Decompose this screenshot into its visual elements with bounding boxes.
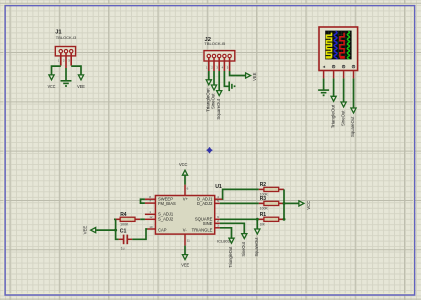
svg-text:FM_BIAS: FM_BIAS [158, 201, 176, 206]
junction R1-SquareOut [256, 218, 259, 221]
J2 pin 1 circle [207, 54, 210, 57]
U1 pin 1 stub [145, 213, 156, 215]
wire U1 pin4 to R2 [223, 189, 259, 199]
J1 pin 1 circle [59, 50, 62, 53]
U1 pin 6 stub (V+) [184, 185, 186, 196]
wire scope C [343, 78, 345, 102]
wire U1 pin9 to R1 [220, 218, 259, 220]
scope pin A stub [323, 71, 325, 79]
terminal SineOut [242, 234, 247, 239]
ground (J2) [229, 82, 232, 92]
wire U1 V- to VEE [184, 246, 186, 255]
junction bus-VCC [283, 202, 286, 205]
wire J2 pin4 to ground [224, 71, 229, 86]
terminal TriangleOut (J2) [206, 80, 211, 85]
wire J2 pin2 [213, 71, 215, 85]
wire junction to VEE terminal [96, 229, 115, 231]
svg-text:10K: 10K [260, 222, 266, 226]
svg-text:R3: R3 [260, 196, 267, 202]
origin marker [207, 147, 213, 153]
power terminal VEE (J2) [246, 73, 251, 78]
terminal SquareOut (scope D) [351, 108, 356, 113]
oscilloscope body [319, 27, 358, 71]
svg-text:S_ADJ2: S_ADJ2 [158, 217, 174, 222]
wire resistor bus vertical [283, 189, 285, 219]
svg-text:1u: 1u [121, 246, 125, 250]
svg-text:5: 5 [217, 199, 219, 203]
svg-text:1: 1 [149, 210, 151, 214]
J2 pin 4 circle [223, 54, 226, 57]
wire R4 to U1 pin12 [140, 218, 145, 220]
terminal TriangleOut [229, 238, 234, 243]
svg-text:100K: 100K [260, 206, 269, 210]
connector J2 body [204, 51, 235, 61]
J2 pin 3 stub [218, 58, 220, 71]
power terminal VCC (U1) [182, 170, 187, 175]
svg-text:VCC: VCC [306, 201, 311, 210]
terminal TriangleOut (scope B) [331, 96, 336, 101]
svg-text:SquareOut: SquareOut [254, 237, 259, 257]
svg-text:VCC: VCC [48, 84, 56, 89]
wire J1 pin1 to VCC terminal [52, 66, 61, 75]
svg-text:R4: R4 [120, 212, 127, 218]
resistor R3 100K [259, 196, 284, 210]
wire J2 pin3 [218, 71, 220, 91]
terminal SineOut (J2) [211, 85, 216, 90]
resistor R2 100K [259, 182, 284, 196]
junction bus-R1 [283, 218, 286, 221]
svg-text:6: 6 [187, 186, 189, 190]
svg-text:12: 12 [149, 215, 153, 219]
J1 pin 2 stub [65, 53, 67, 68]
U1 pin 12 stub [145, 218, 156, 220]
resistor R4 100K [115, 212, 140, 226]
wire scope A to ground [323, 78, 325, 90]
scope trace A (yellow square) [327, 33, 332, 58]
ground (scope A) [318, 90, 329, 93]
svg-text:U1: U1 [215, 184, 222, 190]
J2 pin 2 stub [213, 58, 215, 71]
terminal SquareOut (J2) [217, 91, 222, 96]
wire bus to VCC terminal [284, 202, 299, 204]
J2 pin 1 stub [208, 58, 210, 71]
svg-text:SineOut: SineOut [340, 110, 345, 126]
J2 pin 5 stub [229, 58, 231, 71]
terminal SquareOut [255, 229, 260, 234]
wire J2 pin1 [208, 71, 210, 80]
scope channel markers A B C D [323, 66, 326, 69]
svg-text:C1: C1 [120, 229, 127, 235]
svg-text:SquareOut: SquareOut [216, 98, 221, 119]
svg-text:2: 2 [217, 219, 219, 223]
J1 pin 3 stub [70, 53, 72, 65]
terminal SineOut (scope C) [341, 102, 346, 107]
wire C1 to U1 pin10 [132, 229, 147, 239]
svg-text:V-: V- [183, 227, 188, 232]
J2 pin 2 circle [212, 54, 215, 57]
wire U1 pin5 to R3 [220, 202, 259, 204]
U1 pin 4 stub [215, 198, 223, 200]
J1 pin 2 circle [64, 50, 67, 53]
power terminal VEE (J1) [78, 75, 83, 80]
wire U1 pin3 to TriangleOut [220, 228, 232, 238]
U1 pin 9 stub [215, 218, 220, 220]
svg-text:TBLOCK-I5: TBLOCK-I5 [204, 41, 226, 46]
U1 pin 2 stub [215, 222, 220, 224]
power terminal VEE (U1) [182, 255, 187, 260]
wire J1 pin3 to VEE terminal [71, 66, 81, 75]
scope trace C (red square) [340, 33, 344, 58]
svg-text:VCC: VCC [179, 162, 188, 167]
wire R4 left [114, 218, 116, 220]
svg-text:D_ADJ2: D_ADJ2 [197, 201, 213, 206]
U1 pin 7 stub [145, 202, 156, 204]
junction R4-C1-VEE [114, 229, 117, 232]
wire J1 pin2 to ground [65, 68, 67, 81]
J1 pin 1 stub [60, 53, 62, 65]
scope trace D (green sine) [347, 31, 349, 61]
power terminal VEE (left) [91, 228, 96, 233]
power terminal VCC (right) [299, 201, 304, 206]
wire U1 pin2 to SineOut [220, 223, 244, 233]
U1 pin 10 stub [147, 228, 155, 230]
wire scope B [333, 78, 335, 96]
svg-text:TRIANGLE: TRIANGLE [192, 227, 213, 232]
svg-text:VEE: VEE [181, 263, 189, 268]
wire U1 V+ to VCC [184, 175, 186, 184]
resistor R1 10K [259, 212, 284, 226]
svg-text:R2: R2 [260, 182, 267, 188]
wire U1 pin8 to pin7 loop [141, 199, 145, 203]
svg-text:TriangleOut: TriangleOut [330, 104, 335, 128]
ground (J1) [61, 81, 72, 84]
wire to SquareOut terminal [256, 219, 258, 229]
J2 pin 3 circle [218, 54, 221, 57]
scope pin C stub [343, 71, 345, 79]
wire J2 pin5 to VEE terminal [230, 71, 246, 76]
svg-text:SineOut: SineOut [241, 241, 246, 256]
connector J1 body [55, 47, 75, 56]
U1 pin 8 stub [145, 198, 156, 200]
scope trace B (blue sine) [334, 31, 337, 60]
svg-text:R1: R1 [260, 212, 267, 218]
svg-text:7: 7 [149, 199, 151, 203]
svg-text:CAP: CAP [158, 227, 167, 232]
wire scope D [353, 78, 355, 108]
scope pin B stub [333, 71, 335, 79]
svg-text:100K: 100K [120, 222, 129, 226]
J2 pin 4 stub [223, 58, 225, 71]
svg-text:10: 10 [149, 225, 153, 229]
svg-text:VEE: VEE [252, 72, 257, 81]
svg-text:SquareOut: SquareOut [350, 116, 355, 137]
IC U1 ICL8038 body [155, 196, 214, 235]
svg-text:V+: V+ [183, 197, 189, 202]
svg-text:VEE: VEE [82, 225, 87, 234]
svg-text:TriangleOut: TriangleOut [228, 246, 233, 268]
svg-text:3: 3 [217, 224, 219, 228]
svg-text:SINE: SINE [203, 221, 213, 226]
J1 pin 3 circle [70, 50, 73, 53]
U1 pin 3 stub [215, 227, 220, 229]
svg-text:11: 11 [187, 239, 190, 243]
power terminal VCC (J1) [49, 75, 54, 80]
svg-text:VEE: VEE [77, 84, 85, 89]
J2 pin 5 circle [228, 54, 231, 57]
U1 pin 5 stub [215, 202, 220, 204]
wire R4/C1 left vertical [116, 219, 119, 239]
U1 pin 11 stub (V-) [184, 234, 186, 246]
scope pin D stub [353, 71, 355, 79]
svg-text:TBLOCK-I3: TBLOCK-I3 [56, 35, 77, 40]
